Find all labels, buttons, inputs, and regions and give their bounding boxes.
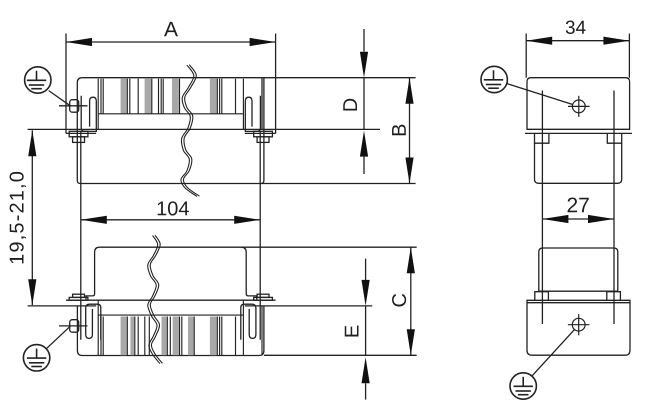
dimension B [392, 78, 414, 184]
screw centerline right [259, 131, 261, 339]
break squiggle lower [148, 235, 163, 363]
dimension 19,5-21,0 [10, 130, 37, 305]
dimension D [343, 29, 368, 174]
leader line bottom right [532, 329, 575, 376]
leader line top left [49, 91, 71, 106]
guide hook lower left [86, 304, 101, 340]
mounting foot upper left [69, 131, 88, 142]
leader line top right [507, 84, 573, 105]
clamp cross tick lower [59, 325, 88, 327]
upper flange bottom edge left [66, 132, 96, 134]
mounting foot upper right [254, 131, 273, 142]
upper housing body front view [77, 78, 415, 184]
earth symbol bottom right [510, 373, 536, 399]
earth symbol bottom left [23, 345, 49, 371]
lower flange bottom line with extensions [28, 305, 97, 307]
lower housing side view [527, 300, 630, 355]
dimension A [66, 22, 276, 134]
lower hood front view [86, 247, 417, 300]
crosshair upper [568, 96, 590, 117]
dimension E [345, 259, 370, 400]
contact stripes upper [98, 79, 243, 130]
contact stripes lower [98, 300, 262, 355]
dimension 34 [526, 21, 629, 78]
upper flange plane line [28, 128, 380, 130]
cable clamp lower left [70, 320, 79, 333]
guide hook upper left [81, 96, 96, 132]
clamp cross tick upper [59, 105, 88, 107]
dimension 27 [542, 198, 614, 224]
guide hook lower right [241, 304, 256, 340]
upper flange bottom edge right [245, 132, 276, 134]
screw centerline left [80, 131, 82, 339]
cable clamp upper left [70, 100, 79, 113]
guide hook upper right [245, 96, 260, 132]
mounting foot lower right [254, 294, 273, 300]
break squiggle upper [181, 65, 200, 197]
crosshair lower [568, 314, 590, 335]
leader line bottom left [46, 326, 70, 349]
lower hood side view [535, 248, 621, 300]
upper housing side view [525, 78, 632, 184]
lower housing body front view [77, 306, 416, 356]
dimension 104 [81, 201, 260, 224]
earth symbol top left [25, 67, 51, 93]
lower flange plane line [66, 299, 276, 301]
27 extension lines [541, 91, 543, 325]
dimension C [392, 247, 415, 355]
mounting foot lower left [69, 294, 88, 300]
earth symbol top right [481, 66, 507, 92]
